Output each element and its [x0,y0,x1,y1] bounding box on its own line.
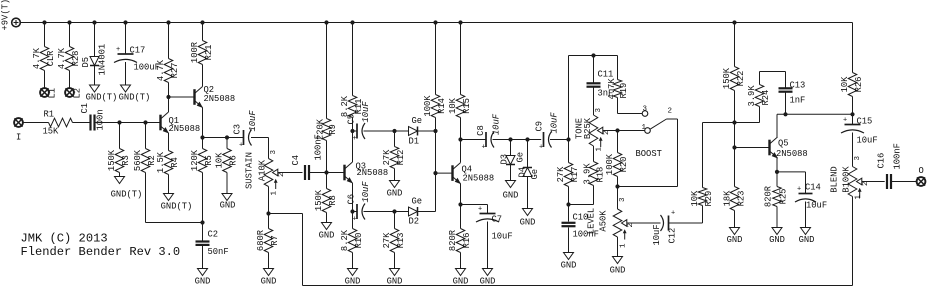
svg-text:R7: R7 [270,235,280,246]
resistor R10 8.2K [352,212,354,229]
diode D2 Ge [409,207,418,216]
svg-text:10uF: 10uF [549,112,559,134]
svg-text:3.9K: 3.9K [747,85,757,107]
wire wiper to C12 [627,222,661,224]
resistor R7 680R [268,214,270,229]
svg-text:Flender Bender Rev 3.0: Flender Bender Rev 3.0 [21,245,181,259]
svg-text:BLEND: BLEND [829,166,839,192]
ground [613,257,623,264]
svg-text:18K: 18K [722,190,732,207]
svg-text:1: 1 [642,124,647,132]
wire [852,197,854,286]
resistor R27 4.7K [168,23,170,59]
transistor Q3 2N5088 [343,165,345,181]
resistor R16 820R [460,205,462,229]
svg-text:C12: C12 [667,228,677,244]
svg-text:GND: GND [799,235,815,245]
svg-text:820R: 820R [448,229,458,251]
svg-text:GND(T): GND(T) [111,190,143,200]
svg-text:GND(T): GND(T) [86,93,118,103]
wire [95,122,161,124]
svg-text:Ge: Ge [412,197,423,207]
node [200,135,204,139]
switch BOOST [642,111,648,117]
svg-text:+: + [843,117,847,125]
ground [523,209,533,216]
ground [506,181,516,188]
capacitor C5 10uF [356,124,358,139]
node [433,171,437,175]
wire emitter row [203,137,244,139]
wire Q4 base [436,172,453,174]
svg-text:GND: GND [261,277,277,287]
svg-text:50nF: 50nF [208,247,229,257]
transistor Q5 2N5088 [768,140,770,156]
ground [90,85,100,92]
resistor R26 10K [852,72,854,74]
capacitor C6 10uF [356,204,358,219]
ground [564,253,574,260]
wire [23,122,49,124]
svg-text:D5: D5 [81,57,91,68]
node [350,209,354,213]
svg-text:1: 1 [270,191,278,196]
svg-text:R24: R24 [761,90,771,106]
node [591,53,595,57]
wire pot pin1 to R18 [593,146,595,162]
svg-text:10uF: 10uF [492,232,513,242]
node [615,128,619,132]
svg-text:10uF: 10uF [652,224,662,245]
svg-text:C14: C14 [805,183,821,193]
node [392,129,396,133]
svg-text:4.7K: 4.7K [57,47,67,69]
svg-text:R22: R22 [736,71,746,87]
potentiometer LEVEL A50K [617,187,619,210]
resistor R22 150K [734,23,736,67]
svg-text:+: + [478,206,482,214]
svg-text:GND: GND [503,191,519,201]
ground [322,223,332,230]
wire [677,119,679,187]
capacitor C12 10uF [668,216,670,231]
svg-text:150K: 150K [107,149,117,171]
wire [493,139,542,141]
node [783,112,787,116]
svg-text:BOOST: BOOST [636,149,662,159]
svg-text:3: 3 [643,106,648,114]
svg-text:2: 2 [278,172,286,177]
potentiometer TONE B25K [593,101,595,116]
wire Q3 emitter [352,183,354,212]
svg-text:Ge: Ge [530,169,540,180]
wire rail drop [852,23,854,73]
svg-text:R12: R12 [396,150,406,166]
svg-text:D3: D3 [499,154,509,165]
capacitor C14 10uF [799,193,813,195]
wire [617,237,619,257]
svg-text:R16: R16 [462,233,472,249]
svg-text:100R: 100R [190,41,200,63]
svg-text:2N5088: 2N5088 [204,94,236,104]
svg-text:15K: 15K [43,127,60,137]
node [392,209,396,213]
wire y113.8 [777,113,853,115]
svg-text:R15: R15 [462,98,472,114]
svg-text:R8: R8 [328,195,338,206]
svg-text:1N4001: 1N4001 [97,44,107,76]
svg-text:10uF: 10uF [361,181,371,203]
svg-text:GND: GND [195,277,211,287]
svg-text:4.7K: 4.7K [156,59,166,81]
resistor R2 560K [145,123,147,149]
svg-text:GND: GND [610,266,626,276]
wire Q5 collector [776,114,778,137]
svg-text:C11: C11 [598,70,614,80]
wire power rail [20,22,853,24]
wire boost to Q5 base line [703,122,760,124]
svg-text:Ge: Ge [515,152,525,163]
svg-text:+: + [539,144,543,152]
ground [730,228,740,235]
svg-text:1: 1 [854,195,862,200]
svg-text:3: 3 [270,150,278,155]
svg-text:120K: 120K [190,149,200,171]
node [200,220,204,224]
resistor R29 10K [702,123,704,188]
svg-text:C8: C8 [476,125,486,136]
svg-text:R9: R9 [328,124,338,135]
node [458,137,462,141]
capacitor C2 50nF [202,223,204,241]
svg-text:10uF: 10uF [248,110,258,132]
svg-text:150K: 150K [722,67,732,89]
LED terminal L1 [40,88,49,97]
svg-text:R6: R6 [228,155,238,166]
resistor R3 150K [119,123,121,149]
node [117,120,121,124]
potentiometer SUSTAIN A10K [264,159,273,187]
potentiometer BLEND B100K [848,167,857,197]
ground [264,269,274,276]
svg-text:100n: 100n [95,109,105,130]
wire [353,211,358,213]
diode D4 Ge [527,140,529,168]
svg-text:2: 2 [668,108,673,116]
capacitor C17 100uF [125,23,127,55]
wire Q4 collector [460,140,462,163]
svg-text:C4: C4 [291,155,301,166]
capacitor C10 100nF [568,205,570,222]
svg-text:R19: R19 [619,83,629,99]
svg-text:+: + [116,46,120,54]
svg-text:27K: 27K [382,232,392,249]
svg-text:C17: C17 [130,46,146,56]
node [225,135,229,139]
svg-text:CLR: CLR [46,50,56,67]
resistor R9 220K [326,23,328,119]
resistor R5 120K [202,138,204,149]
diode D5 1N4001 [94,23,96,57]
LED terminal L2 [65,88,74,97]
wire [364,130,409,132]
svg-text:27K: 27K [382,149,392,166]
capacitor C13 1nF [785,72,787,88]
ground [348,269,358,276]
wire bottom feedback [303,285,853,287]
svg-text:3: 3 [619,197,627,202]
transistor Q4 2N5088 [451,165,453,181]
svg-text:I: I [16,133,21,143]
ground [164,194,174,201]
wire wiper to C16 [862,181,885,183]
svg-text:GND: GND [387,189,403,199]
svg-text:680R: 680R [256,229,266,251]
wire switch lever [650,119,667,129]
resistor CLR 4.7K [44,23,46,47]
wire y186 [618,186,678,188]
svg-text:GND: GND [727,235,743,245]
svg-text:R29: R29 [704,191,714,207]
wire [418,130,436,132]
svg-text:R23: R23 [736,191,746,207]
diode D1 Ge [409,127,418,136]
resistor R14 100K [435,23,437,95]
capacitor C9 10uF [543,132,545,147]
ground [121,85,131,92]
svg-text:150K: 150K [314,189,324,211]
svg-text:2: 2 [603,130,611,135]
svg-text:C1: C1 [80,103,90,114]
svg-text:R21: R21 [204,45,214,61]
svg-text:100K: 100K [605,153,615,175]
svg-text:+: + [353,135,357,143]
svg-text:C3: C3 [232,124,242,135]
svg-text:C9: C9 [534,121,544,132]
svg-text:10K: 10K [448,97,458,114]
svg-text:GND: GND [220,201,236,211]
svg-text:GND(T): GND(T) [161,202,193,212]
node [266,211,270,215]
svg-text:+: + [353,216,357,224]
svg-text:1.5K: 1.5K [156,151,166,173]
capacitor C1 100n [89,115,91,131]
svg-text:10K: 10K [214,152,224,169]
wire R18 jog to C10 [593,186,595,205]
svg-text:10K: 10K [840,76,850,93]
svg-text:10uF: 10uF [361,101,371,123]
svg-text:C6: C6 [346,194,356,205]
wire [461,139,487,141]
svg-text:2: 2 [627,223,635,228]
svg-text:2N5088: 2N5088 [169,124,201,134]
transistor Q2 2N5088 [193,89,195,105]
svg-text:4.7K: 4.7K [32,47,42,69]
ground [390,181,400,188]
svg-text:R25: R25 [778,189,788,205]
wire [353,130,358,132]
wire pot pin1 [268,187,270,214]
svg-text:R4: R4 [170,157,180,168]
svg-text:C7: C7 [492,215,503,225]
wire wiper to C4 [278,172,303,174]
output terminal O [917,177,926,186]
resistor R6 10K [226,138,228,149]
svg-text:GND: GND [520,218,536,228]
svg-text:10K: 10K [690,190,700,207]
wire Q1 emitter [168,133,170,151]
node [508,137,512,141]
ground [456,269,466,276]
wire Q2 base [169,96,195,98]
svg-text:R18: R18 [595,167,605,183]
resistor R19 4.7K [617,56,619,80]
svg-text:D2: D2 [409,217,420,227]
wire [145,173,147,223]
svg-text:1: 1 [619,243,627,248]
wire [251,137,269,139]
resistor R8 150K [326,173,328,189]
resistor R21 100R [202,23,204,41]
svg-text:R1: R1 [44,110,55,120]
node [732,120,736,124]
svg-text:2N5088: 2N5088 [776,149,808,159]
input terminal I [14,118,23,127]
svg-text:10uF: 10uF [491,113,501,135]
wire Q3 collector [352,131,354,162]
resistor R1 15K [49,118,73,127]
svg-text:R3: R3 [121,155,131,166]
svg-text:100K: 100K [423,95,433,117]
svg-text:R26: R26 [854,77,864,93]
svg-text:GND: GND [769,235,785,245]
node [615,184,619,188]
wire tone feed [568,56,570,140]
wire [550,139,569,141]
svg-text:C15: C15 [857,117,873,127]
svg-text:+: + [797,186,801,194]
svg-text:R5: R5 [204,155,214,166]
resistor R20 100K [617,131,619,153]
svg-text:R27: R27 [170,63,180,79]
capacitor C11 3nF [593,56,595,83]
node [732,145,736,149]
svg-text:1nF: 1nF [790,96,806,106]
wire Q5 emitter [776,158,778,172]
svg-text:2N5088: 2N5088 [463,174,495,184]
ground [198,269,208,276]
wire [269,213,303,215]
resistor R24 3.9K [759,107,761,123]
wire [669,222,703,224]
wire [435,131,437,173]
svg-text:R14: R14 [437,98,447,114]
wire [618,113,643,115]
svg-text:3: 3 [595,108,603,113]
svg-text:B25K: B25K [583,117,593,139]
svg-text:+: + [671,210,675,218]
svg-text:R28: R28 [71,51,81,67]
ground [222,194,232,201]
svg-text:+: + [482,144,486,152]
svg-text:C13: C13 [790,81,806,91]
node [458,202,462,206]
svg-text:D1: D1 [409,137,420,147]
capacitor C4 100nF [304,165,306,180]
svg-text:C2: C2 [208,230,219,240]
svg-text:L1: L1 [47,88,57,99]
svg-text:10uF: 10uF [806,201,827,211]
capacitor C16 100nF [886,174,888,189]
svg-text:A50K: A50K [598,210,608,232]
resistor R4 1.5K [168,150,170,152]
resistor R18 3.9K [589,162,598,186]
node [166,95,170,99]
svg-text:27K: 27K [556,166,566,183]
capacitor C3 10uF [243,130,245,145]
svg-text:R10: R10 [354,233,364,249]
wire Q2 collector [202,65,204,87]
ground [390,269,400,276]
svg-text:B100K: B100K [841,166,851,193]
transistor Q1 2N5088 [159,115,161,131]
svg-text:LEVEL: LEVEL [586,208,596,234]
resistor R12 27K [394,131,396,147]
resistor R25 820R [776,172,778,187]
wire Q2 emitter [202,108,204,138]
svg-text:10uF: 10uF [857,136,878,146]
svg-text:Ge: Ge [412,116,423,126]
wire [461,204,488,206]
svg-text:100nF: 100nF [892,143,902,169]
ground [801,228,811,235]
diode D3 Ge [510,140,512,156]
wire [777,171,806,173]
svg-text:2: 2 [862,181,870,186]
svg-text:220K: 220K [315,118,325,140]
resistor R17 27K [568,140,570,163]
node [350,129,354,133]
wire wiper row [603,130,645,132]
capacitor C15 10uF [845,124,861,126]
svg-text:820R: 820R [763,185,773,207]
ground [772,228,782,235]
capacitor C7 10uF [480,213,496,215]
resistor R11 8.2K [352,23,354,96]
svg-text:SUSTAIN: SUSTAIN [244,152,254,189]
svg-text:GND(T): GND(T) [119,93,151,103]
resistor R28 4.7K [69,23,71,47]
svg-text:GND: GND [561,261,577,271]
svg-text:O: O [919,166,924,176]
svg-text:3.9K: 3.9K [582,163,592,185]
svg-text:L2: L2 [72,88,82,99]
power terminal +9V(T) [12,18,21,27]
svg-text:3: 3 [854,156,862,161]
resistor R23 18K [734,186,736,188]
svg-text:R20: R20 [619,157,629,173]
capacitor C8 10uF [485,132,487,147]
svg-text:8.2K: 8.2K [340,95,350,117]
node [775,170,779,174]
resistor R15 10K [460,23,462,95]
svg-text:JMK (C) 2013: JMK (C) 2013 [21,232,108,246]
svg-text:Q5: Q5 [778,139,789,149]
ground [115,177,125,184]
node [433,129,437,133]
svg-text:C16: C16 [876,153,886,169]
svg-text:+: + [239,142,243,150]
